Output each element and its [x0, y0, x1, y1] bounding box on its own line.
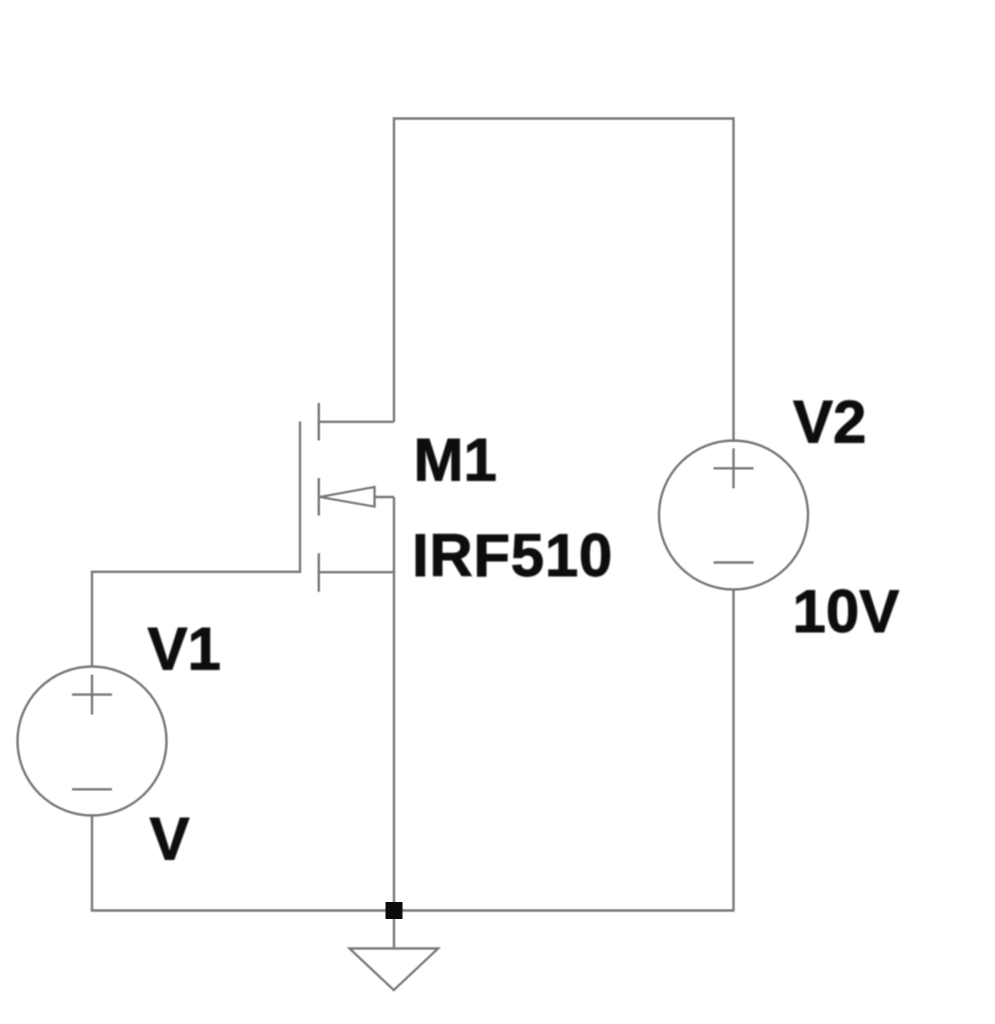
node junction square — [386, 902, 403, 919]
wire gate from V1 — [92, 572, 300, 667]
svg-text:V: V — [150, 806, 190, 873]
svg-text:10V: 10V — [793, 578, 900, 645]
svg-text:IRF510: IRF510 — [412, 522, 613, 589]
transistor M1 drain lead — [319, 421, 394, 423]
V1 plus sign — [72, 693, 112, 695]
svg-text:V1: V1 — [148, 616, 221, 683]
transistor M1 channel middle segment — [318, 478, 320, 516]
V2 plus sign — [714, 467, 754, 469]
wire source to ground junction — [393, 497, 395, 911]
svg-text:V2: V2 — [793, 389, 866, 456]
V2 minus sign — [714, 561, 754, 563]
wire top rail — [394, 119, 734, 443]
wire bottom rail — [92, 589, 734, 911]
transistor M1 channel top segment — [318, 403, 320, 441]
transistor M1 channel bottom segment — [318, 553, 320, 592]
transistor M1 gate bar — [299, 422, 301, 574]
transistor M1 source lead — [319, 571, 394, 573]
voltage source V1 circle — [18, 667, 167, 816]
transistor M1 body lead with arrow — [375, 496, 395, 498]
V1 minus sign — [72, 788, 112, 790]
svg-text:M1: M1 — [414, 427, 497, 494]
voltage source V2 circle — [659, 441, 808, 590]
ground symbol — [393, 911, 395, 949]
